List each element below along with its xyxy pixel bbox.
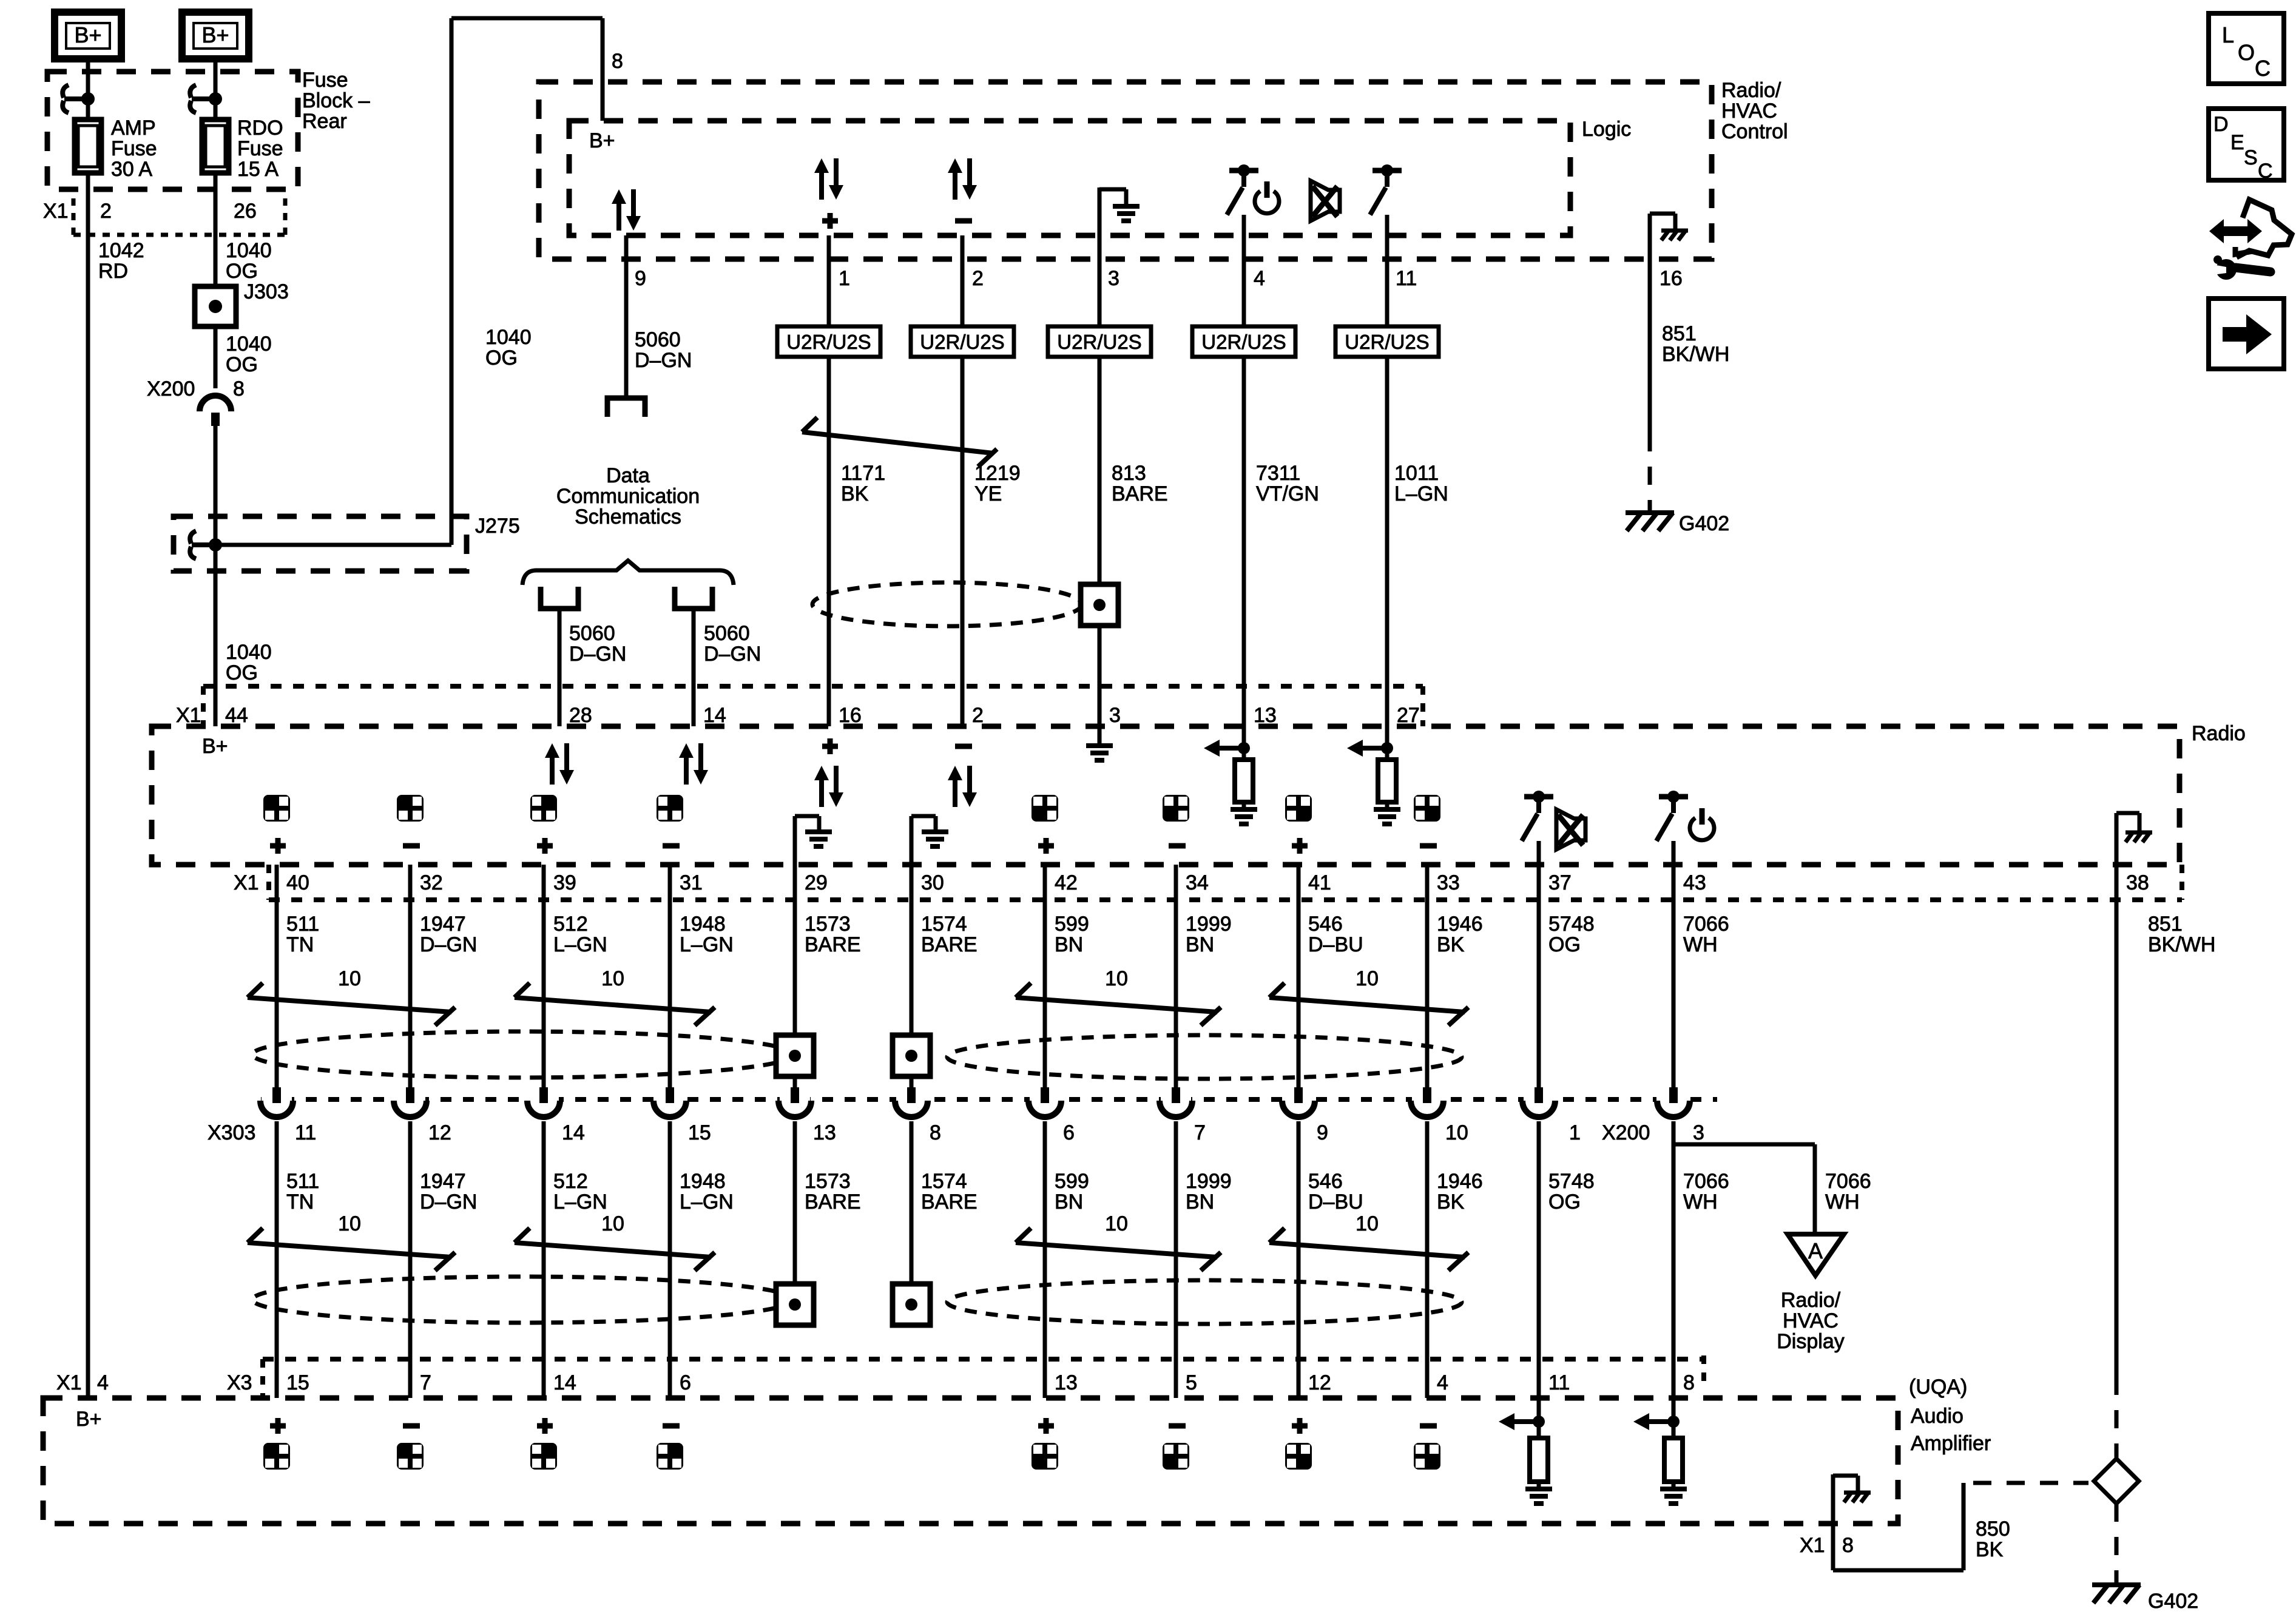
svg-text:D–BU: D–BU [1308, 933, 1363, 956]
wire 851 dashed [1648, 433, 1652, 510]
svg-text:BK: BK [841, 482, 869, 505]
svg-text:7: 7 [1194, 1121, 1206, 1144]
connector diamond [2094, 1459, 2139, 1504]
svg-text:1042: 1042 [98, 239, 144, 262]
wire x2758 radio to X303 [1672, 865, 1676, 1087]
svg-text:1040: 1040 [226, 641, 272, 664]
wire x1722 X303 to amp [1043, 1121, 1047, 1398]
switch pin 4 [1229, 168, 1258, 174]
connector arc X303 x1722 [1030, 1096, 1060, 1110]
mute icon radio [1556, 809, 1585, 849]
svg-text:2: 2 [972, 704, 984, 727]
wire x676 X303 to amp [408, 1121, 413, 1398]
speaker icon radio x1938 [1163, 795, 1189, 822]
svg-text:599: 599 [1055, 913, 1089, 936]
wire J275 to top [215, 543, 451, 547]
svg-text:BARE: BARE [1112, 482, 1168, 505]
harness slash 10 lower c1-c2 [248, 1243, 451, 1257]
svg-text:O: O [2238, 40, 2255, 65]
connector arc X303 x2352 [1412, 1096, 1442, 1110]
U2R/U2S option box x2286 [1335, 326, 1439, 357]
svg-text:Fuse: Fuse [302, 69, 348, 92]
svg-text:WH: WH [1683, 1190, 1718, 1214]
svg-text:30: 30 [921, 871, 944, 894]
shield box 1573 upper [776, 1035, 814, 1076]
svg-text:RD: RD [98, 260, 128, 283]
svg-text:15: 15 [688, 1121, 711, 1144]
svg-text:Display: Display [1777, 1330, 1844, 1353]
connector X200 pin 8 [200, 396, 231, 411]
connector arc X303 x676 [395, 1096, 425, 1110]
svg-text:850: 850 [1976, 1517, 2010, 1541]
svg-text:10: 10 [338, 967, 361, 990]
svg-text:TN: TN [286, 933, 314, 956]
svg-text:1999: 1999 [1186, 1170, 1232, 1193]
svg-text:Data: Data [606, 464, 650, 487]
svg-text:12: 12 [1308, 1371, 1331, 1394]
ground bend pin 16 [1648, 214, 1652, 433]
svg-text:32: 32 [420, 871, 443, 894]
svg-text:37: 37 [1548, 871, 1572, 894]
svg-text:Control: Control [1721, 120, 1788, 143]
ground G402 top [1626, 510, 1674, 515]
svg-text:B+: B+ [201, 22, 229, 47]
svg-text:1946: 1946 [1437, 913, 1483, 936]
svg-text:B+: B+ [589, 129, 615, 152]
arrow resistor ground pin 27 [1385, 726, 1389, 760]
twisted pair ellipse low-left [252, 1277, 794, 1323]
wire x896 radio to X303 [542, 865, 546, 1087]
switch radio pin 37 [1524, 794, 1553, 800]
wire 1573 shield to X303 [793, 1076, 797, 1087]
svg-text:L–GN: L–GN [680, 1190, 734, 1214]
svg-text:7066: 7066 [1825, 1170, 1871, 1193]
svg-text:L–GN: L–GN [553, 1190, 607, 1214]
speaker icon amp x1722 [1038, 1423, 1054, 1429]
svg-text:D–GN: D–GN [704, 643, 761, 666]
svg-text:BK: BK [1437, 1190, 1465, 1214]
fuse F2 RDO 15A [202, 120, 229, 173]
svg-text:10: 10 [338, 1212, 361, 1235]
svg-text:6: 6 [1063, 1121, 1075, 1144]
svg-text:1171: 1171 [841, 462, 885, 485]
arrow resistor ground amp x2536 [1537, 1398, 1541, 1438]
wire 7066 branch [1673, 1143, 1815, 1147]
wire 851 lower solid [2115, 865, 2119, 1377]
svg-text:1: 1 [1569, 1121, 1581, 1144]
Radio box [152, 726, 2180, 865]
wire x1104 radio to X303 [668, 865, 672, 1087]
svg-text:BK: BK [1976, 1538, 2004, 1561]
svg-text:29: 29 [805, 871, 828, 894]
icon box DESC [2209, 109, 2284, 180]
svg-text:1948: 1948 [680, 1170, 726, 1193]
speaker icon radio x1722 [1032, 795, 1058, 822]
connector arc X303 x1310 [780, 1096, 810, 1110]
connector arc X303 x1104 [655, 1096, 685, 1110]
chassis ground pin 16 [1661, 229, 1688, 233]
wire x1104 X303 to amp [668, 1121, 672, 1398]
twisted pair ellipse mid-left [252, 1031, 794, 1078]
svg-text:7: 7 [420, 1371, 431, 1394]
svg-text:1947: 1947 [420, 1170, 466, 1193]
wire pin 9 [624, 235, 629, 396]
arrows radio pin 28 [545, 743, 559, 758]
svg-text:HVAC: HVAC [1721, 100, 1777, 123]
wire 5060 D-GN a [558, 609, 562, 726]
svg-text:OG: OG [226, 260, 258, 283]
svg-text:1011: 1011 [1394, 462, 1439, 485]
svg-text:1040: 1040 [226, 333, 272, 356]
svg-text:1948: 1948 [680, 913, 726, 936]
svg-text:11: 11 [1548, 1371, 1570, 1394]
mute icon [1311, 181, 1340, 221]
wire 1040 OG seg2 [214, 426, 218, 726]
wire 1574 to shield [910, 865, 914, 1035]
arrows radio pin 16 [814, 766, 829, 780]
arrows radio pin 2 [948, 766, 962, 780]
svg-text:13: 13 [813, 1121, 836, 1144]
wire pin 4 [1242, 215, 1246, 726]
wire 1040 OG seg1 [214, 173, 218, 388]
svg-text:E: E [2230, 131, 2244, 154]
wire pin 2 [961, 235, 965, 726]
svg-text:BN: BN [1055, 933, 1083, 956]
svg-text:OG: OG [1548, 933, 1581, 956]
svg-text:1040: 1040 [226, 239, 272, 262]
speaker icon amp x676 [403, 1423, 420, 1429]
svg-text:4: 4 [1254, 267, 1265, 290]
wire 1574 X303 to shield2 [910, 1121, 914, 1285]
svg-text:Rear: Rear [302, 110, 347, 133]
svg-text:5: 5 [1186, 1371, 1197, 1394]
svg-text:D–GN: D–GN [569, 643, 626, 666]
twisted pair ellipse top [812, 582, 1082, 626]
svg-text:C: C [2258, 160, 2273, 183]
svg-text:Schematics: Schematics [575, 505, 681, 528]
connector X303 dotted [261, 1097, 1656, 1102]
svg-text:G402: G402 [1679, 512, 1729, 535]
wire x896 X303 to amp [542, 1121, 546, 1398]
wire x2140 X303 to amp [1297, 1121, 1301, 1398]
svg-text:C: C [2255, 56, 2271, 81]
svg-text:8: 8 [233, 377, 245, 400]
arrows radio pin 14 [679, 743, 694, 758]
wire 5060 D-GN b [692, 609, 696, 726]
svg-text:X200: X200 [147, 377, 195, 400]
svg-text:9: 9 [635, 267, 646, 290]
wire x2352 radio to X303 [1425, 865, 1430, 1087]
svg-text:YE: YE [974, 482, 1002, 505]
svg-text:Block –: Block – [302, 89, 370, 112]
inline connector half 5060 b [675, 587, 712, 609]
wire pin 3 [1098, 259, 1102, 726]
icon box arrow [2209, 299, 2284, 369]
svg-text:BARE: BARE [805, 933, 861, 956]
svg-text:9: 9 [1317, 1121, 1328, 1144]
svg-text:11: 11 [1396, 267, 1417, 290]
splice J275 box [174, 516, 467, 571]
svg-text:13: 13 [1254, 704, 1277, 727]
svg-text:1573: 1573 [805, 1170, 851, 1193]
svg-text:OG: OG [226, 353, 258, 376]
svg-text:WH: WH [1825, 1190, 1860, 1214]
svg-text:BARE: BARE [921, 1190, 977, 1214]
svg-text:851: 851 [2148, 913, 2183, 936]
svg-text:A: A [1808, 1238, 1823, 1263]
svg-text:1574: 1574 [921, 913, 967, 936]
svg-text:14: 14 [562, 1121, 585, 1144]
ground bend radio c6 [910, 816, 914, 865]
svg-text:U2R/U2S: U2R/U2S [1345, 331, 1429, 353]
svg-text:1999: 1999 [1186, 913, 1232, 936]
svg-text:J275: J275 [475, 515, 520, 538]
svg-text:X1: X1 [234, 871, 259, 894]
svg-text:BN: BN [1186, 1190, 1214, 1214]
svg-text:512: 512 [553, 913, 588, 936]
U2R/U2S option box x1586 [911, 326, 1014, 357]
shield box 813 [1081, 584, 1118, 626]
svg-text:X3: X3 [227, 1371, 252, 1394]
wire B+2 to RDO fuse [214, 59, 218, 120]
svg-text:10: 10 [1445, 1121, 1468, 1144]
harness slash t2-t3 [802, 432, 993, 453]
connector arc X303 x2140 [1283, 1096, 1314, 1110]
svg-text:B+: B+ [202, 735, 228, 758]
svg-text:WH: WH [1683, 933, 1718, 956]
plus sign pin 1 [822, 218, 838, 224]
svg-text:511: 511 [286, 1170, 319, 1193]
svg-text:5748: 5748 [1548, 913, 1595, 936]
ground radio pin 3 [1098, 726, 1102, 745]
bidirectional arrows pin 2 [948, 158, 962, 173]
ground bend radio c5 [793, 816, 797, 865]
svg-text:X303: X303 [208, 1121, 255, 1144]
minus radio pin 2 [955, 744, 972, 749]
svg-text:30 A: 30 A [111, 158, 152, 181]
svg-text:X200: X200 [1602, 1121, 1650, 1144]
minus sign pin 2 [955, 218, 972, 224]
svg-text:L–GN: L–GN [553, 933, 607, 956]
arrow resistor ground pin 13 [1242, 726, 1246, 760]
svg-text:546: 546 [1308, 913, 1343, 936]
svg-text:10: 10 [1105, 1212, 1128, 1235]
power icon [1255, 191, 1279, 214]
wire B+1 to AMP fuse [86, 59, 90, 120]
svg-text:33: 33 [1437, 871, 1460, 894]
svg-text:10: 10 [1105, 967, 1128, 990]
svg-text:OG: OG [485, 346, 518, 370]
svg-text:6: 6 [680, 1371, 691, 1394]
connector X1 radio bottom dotted [269, 897, 2182, 902]
fuse F1 AMP 30A [75, 120, 101, 173]
ground X1-8 amp [1831, 1474, 1835, 1570]
svg-text:BK: BK [1437, 933, 1465, 956]
speaker icon radio x456 [263, 795, 290, 822]
wire x2536 X303 to amp [1537, 1121, 1541, 1398]
svg-text:J303: J303 [244, 280, 289, 303]
svg-text:2: 2 [972, 267, 984, 290]
svg-text:1946: 1946 [1437, 1170, 1483, 1193]
svg-text:8: 8 [1842, 1534, 1854, 1557]
svg-text:(UQA): (UQA) [1909, 1376, 1967, 1399]
harness slash 10 lower c7-c8 [1016, 1243, 1217, 1257]
svg-text:Radio: Radio [2192, 722, 2246, 745]
svg-text:L–GN: L–GN [1394, 482, 1448, 505]
brace data comm [522, 561, 734, 585]
svg-text:Radio/: Radio/ [1721, 79, 1781, 102]
wire x676 radio to X303 [408, 865, 413, 1087]
svg-text:1573: 1573 [805, 913, 851, 936]
wire x456 X303 to amp [275, 1121, 279, 1398]
svg-text:31: 31 [680, 871, 703, 894]
speaker icon amp x1938 [1169, 1423, 1186, 1429]
ground symbol pin 3 [1098, 187, 1102, 259]
svg-text:1: 1 [839, 267, 850, 290]
svg-text:3: 3 [1109, 704, 1121, 727]
svg-text:28: 28 [569, 704, 592, 727]
Audio Amplifier box [43, 1398, 1898, 1524]
svg-text:4: 4 [97, 1371, 109, 1394]
speaker icon amp x2140 [1292, 1423, 1308, 1429]
ground G402 bottom [2092, 1582, 2141, 1587]
svg-text:X1: X1 [176, 704, 201, 727]
svg-text:512: 512 [553, 1170, 588, 1193]
wire 1573 X303 to shield2 [793, 1121, 797, 1285]
svg-text:1947: 1947 [420, 913, 466, 936]
wire x456 radio to X303 [275, 865, 279, 1087]
icon check-adjust [2209, 219, 2262, 243]
svg-text:BARE: BARE [921, 933, 977, 956]
svg-text:Radio/: Radio/ [1781, 1289, 1841, 1312]
ground bend radio pin 38 [2115, 813, 2119, 865]
speaker icon radio x676 [397, 795, 424, 822]
wire pin 11 [1385, 215, 1389, 726]
wire x1938 radio to X303 [1174, 865, 1178, 1087]
svg-text:L–GN: L–GN [680, 933, 734, 956]
svg-text:3: 3 [1108, 267, 1119, 290]
svg-text:12: 12 [428, 1121, 451, 1144]
svg-text:Logic: Logic [1582, 118, 1631, 141]
splice J303 [195, 286, 236, 326]
svg-text:43: 43 [1683, 871, 1706, 894]
svg-text:S: S [2244, 146, 2258, 169]
svg-text:15: 15 [286, 1371, 309, 1394]
svg-text:X1: X1 [56, 1371, 82, 1394]
svg-text:14: 14 [703, 704, 726, 727]
fuse block - rear dashed box [47, 72, 298, 189]
svg-text:16: 16 [839, 704, 862, 727]
harness slash 10 lower c3-c4 [515, 1243, 711, 1257]
connector arc X303 x456 [262, 1096, 292, 1110]
svg-text:10: 10 [601, 1212, 624, 1235]
inline connector half 5060 a [541, 587, 578, 609]
svg-text:813: 813 [1112, 462, 1146, 485]
harness slash 10 c7-c8 [1016, 998, 1217, 1012]
svg-text:40: 40 [286, 871, 309, 894]
svg-text:2: 2 [100, 200, 112, 223]
dashed link to diamond [1973, 1481, 2088, 1485]
wire 851 to G402 [2115, 1504, 2119, 1582]
svg-text:16: 16 [1660, 267, 1683, 290]
speaker icon amp x2352 [1420, 1423, 1437, 1429]
svg-text:13: 13 [1055, 1371, 1078, 1394]
speaker icon radio x2140 [1285, 795, 1312, 822]
wire 1042 RD [86, 173, 90, 1398]
svg-text:8: 8 [1683, 1371, 1695, 1394]
switch radio pin 43 [1659, 794, 1688, 800]
svg-text:7311: 7311 [1256, 462, 1300, 485]
svg-text:39: 39 [553, 871, 576, 894]
U2R/U2S option box x2050 [1192, 326, 1295, 357]
svg-text:10: 10 [1356, 967, 1379, 990]
wire 850 BK [1833, 1568, 1963, 1573]
wire 1574 shield to X303 [910, 1076, 914, 1087]
wire 851 lower dashed [2115, 1377, 2119, 1457]
svg-text:BN: BN [1055, 1190, 1083, 1214]
svg-text:U2R/U2S: U2R/U2S [1057, 331, 1141, 353]
connector X1 radio top dotted [203, 684, 1423, 689]
svg-text:X1: X1 [43, 200, 69, 223]
connector X3 dotted [263, 1357, 1704, 1362]
svg-text:8: 8 [930, 1121, 941, 1144]
connector arc X303 x2536 [1524, 1096, 1554, 1110]
harness slash 10 c3-c4 [515, 998, 711, 1012]
svg-text:4: 4 [1437, 1371, 1448, 1394]
svg-text:7066: 7066 [1683, 1170, 1729, 1193]
svg-text:VT/GN: VT/GN [1256, 482, 1319, 505]
svg-text:BARE: BARE [805, 1190, 861, 1214]
svg-text:3: 3 [1693, 1121, 1704, 1144]
connector arc X303 x896 [528, 1096, 559, 1110]
wire x2140 radio to X303 [1297, 865, 1301, 1087]
arrow resistor ground amp x2758 [1672, 1398, 1676, 1438]
svg-text:1219: 1219 [974, 462, 1021, 485]
harness slash 10 c1-c2 [248, 998, 451, 1012]
harness slash 10 lower c9-c10 [1269, 1243, 1465, 1257]
svg-text:41: 41 [1308, 871, 1331, 894]
speaker icon amp x896 [537, 1423, 553, 1429]
twisted pair ellipse mid-right [947, 1035, 1462, 1079]
svg-text:851: 851 [1662, 322, 1697, 345]
connector arc X200-3 [1658, 1096, 1689, 1110]
svg-text:D–GN: D–GN [420, 1190, 477, 1214]
svg-text:599: 599 [1055, 1170, 1089, 1193]
icon box LOC [2209, 13, 2284, 84]
bidirectional arrows pin 1 [814, 158, 829, 173]
svg-text:B+: B+ [74, 22, 101, 47]
svg-text:5060: 5060 [635, 328, 681, 351]
speaker icon amp x456 [270, 1423, 286, 1429]
speaker icon amp x1104 [663, 1423, 680, 1429]
svg-text:5060: 5060 [704, 622, 750, 645]
svg-text:U2R/U2S: U2R/U2S [920, 331, 1004, 353]
svg-text:BK/WH: BK/WH [1662, 343, 1729, 366]
shield box 1573 lower [776, 1284, 814, 1325]
svg-text:15 A: 15 A [237, 158, 279, 181]
twisted pair ellipse low-right [947, 1280, 1462, 1324]
fuse clip J2 [190, 85, 196, 98]
svg-text:Fuse: Fuse [111, 137, 157, 160]
wire 1573 to shield [793, 865, 797, 1035]
connector arc X303 x1502 [896, 1096, 927, 1110]
svg-text:OG: OG [226, 661, 258, 684]
svg-text:BK/WH: BK/WH [2148, 933, 2215, 956]
wire pin 1 [827, 235, 831, 726]
svg-text:D–GN: D–GN [635, 349, 692, 372]
switch pin 11 [1373, 168, 1402, 174]
svg-text:OG: OG [1548, 1190, 1581, 1214]
